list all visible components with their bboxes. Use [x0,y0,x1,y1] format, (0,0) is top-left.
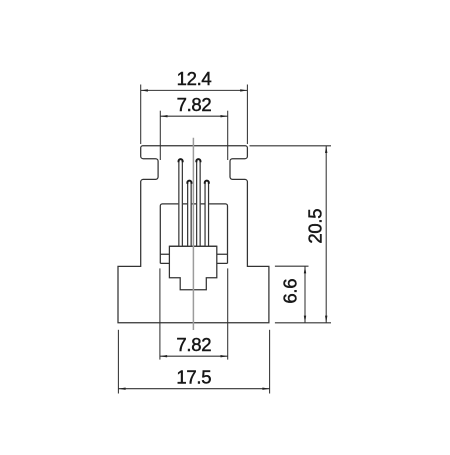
svg-text:17.5: 17.5 [176,366,211,387]
svg-text:20.5: 20.5 [304,209,325,244]
svg-text:12.4: 12.4 [177,68,212,89]
svg-text:7.82: 7.82 [176,334,211,355]
svg-text:7.82: 7.82 [177,94,212,115]
svg-text:6.6: 6.6 [280,279,301,304]
